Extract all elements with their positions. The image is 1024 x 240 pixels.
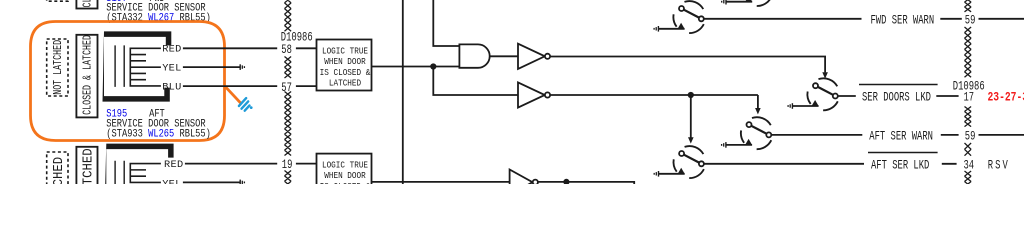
svg-text:RSV: RSV <box>988 159 1010 173</box>
lower sensor NOT LATCHED dashed box (cut off bottom) <box>47 152 68 209</box>
wire SER DOORS LKD row <box>838 95 959 97</box>
svg-text:LOGIC TRUE: LOGIC TRUE <box>322 160 368 171</box>
svg-text:WHEN DOOR: WHEN DOOR <box>324 170 365 181</box>
svg-text:59: 59 <box>965 130 976 144</box>
svg-text:YEL: YEL <box>162 62 181 74</box>
svg-text:D10986: D10986 <box>953 80 985 94</box>
AFT sensor CLOSED & LATCHED box <box>76 35 97 118</box>
wire BLU to pin 57 <box>183 85 317 87</box>
svg-text:BLU: BLU <box>162 81 181 93</box>
svg-text:19: 19 <box>282 159 293 173</box>
FWD sensor CLOSED & LATCHED box (cut off top) <box>76 0 97 9</box>
sensor S195 coil comb <box>130 48 161 87</box>
svg-text:WHEN DOOR: WHEN DOOR <box>324 56 365 67</box>
lower sensor bracket <box>101 144 174 240</box>
orange leader line <box>225 86 242 104</box>
svg-text:YEL: YEL <box>162 179 181 185</box>
node junction dot A <box>430 63 436 69</box>
wire AND output <box>490 55 518 57</box>
orange highlight rounded rect annotation <box>31 22 225 141</box>
svg-text:23-27-31: 23-27-31 <box>988 92 1024 105</box>
svg-text:NOT LATCHED: NOT LATCHED <box>50 157 66 184</box>
overline AFT SER LKD <box>868 152 938 154</box>
svg-text:59: 59 <box>965 14 976 28</box>
svg-text:LATCHED: LATCHED <box>329 78 361 89</box>
wire AFT SER LKD row <box>704 163 957 165</box>
svg-text:AFT SER WARN: AFT SER WARN <box>869 130 933 144</box>
svg-text:(STA933 WL265 RBL55): (STA933 WL265 RBL55) <box>106 128 211 140</box>
inverter U4 <box>518 82 545 107</box>
wire FWD SER WARN row <box>704 18 1024 20</box>
logic box U2: LOGIC TRUE WHEN DOOR (cut off bottom) <box>317 154 372 205</box>
wire inverter U3 output to SER DOORS LKD switch <box>550 57 825 73</box>
svg-text:IS CLOSED &: IS CLOSED & <box>320 181 371 184</box>
svg-text:IS CLOSED &: IS CLOSED & <box>320 67 371 78</box>
vertical bus wire <box>402 0 404 184</box>
lower sensor CLOSED & LATCHED box (cut off bottom) <box>76 147 97 230</box>
shield termination YEL <box>239 64 241 70</box>
actuation arrow to AFT SER LKD switch <box>690 95 692 138</box>
wire node A down to inverter U4 <box>433 67 518 96</box>
wire AFT SER WARN row <box>771 134 1024 136</box>
inverter U3 <box>518 44 545 69</box>
svg-text:LOGIC TRUE: LOGIC TRUE <box>322 46 368 57</box>
overline SER DOORS LKD <box>859 84 938 86</box>
switch S2 SER DOORS LKD <box>788 78 838 110</box>
wire U1 output <box>372 66 460 68</box>
svg-text:NOT LATCHED: NOT LATCHED <box>53 40 66 95</box>
blue cursor icon <box>239 98 250 111</box>
switch S3 AFT SER WARN <box>722 117 772 149</box>
wire YEL to shield ground <box>183 66 240 68</box>
logic box U1: LOGIC TRUE WHEN DOOR IS CLOSED & LATCHED <box>317 40 372 91</box>
svg-text:CLOSED & LATCHED: CLOSED & LATCHED <box>80 148 96 184</box>
svg-text:RED: RED <box>164 159 183 171</box>
wire AND top input from above <box>433 0 459 46</box>
wire U2 output <box>372 181 510 183</box>
switch S4 AFT SER LKD <box>654 146 704 178</box>
sensor S195 bracket <box>103 31 172 101</box>
svg-text:SER DOORS LKD: SER DOORS LKD <box>862 91 931 105</box>
connector D10986 (right) chain <box>965 0 972 187</box>
FWD sensor NOT LATCHED dashed box (cut off top) <box>47 0 68 1</box>
shield termination YEL lower <box>239 180 241 186</box>
wire inverter U4 output <box>550 94 758 96</box>
node junction dot C <box>563 179 569 185</box>
switch S1 FWD SER WARN <box>654 1 704 33</box>
AFT sensor NOT LATCHED dashed box <box>47 39 68 96</box>
svg-text:FWD SER WARN: FWD SER WARN <box>871 14 935 28</box>
svg-text:CLOSED & LATCHED: CLOSED & LATCHED <box>83 0 96 8</box>
svg-text:RED: RED <box>162 44 181 56</box>
connector D10986 (left) chain <box>285 0 292 187</box>
svg-text:58: 58 <box>281 44 292 58</box>
svg-text:57: 57 <box>281 81 292 95</box>
AND gate <box>459 44 489 67</box>
wire YEL lower (cut) <box>183 181 240 183</box>
lower sensor coil comb <box>130 163 161 183</box>
wire inverter U5 output <box>538 182 634 184</box>
actuation arrow to AFT SER WARN switch <box>757 95 759 109</box>
sensor S195 target plates <box>115 45 124 87</box>
wire RED to pin 19 <box>185 163 317 165</box>
inverter U5 (cut off bottom) <box>510 170 533 195</box>
wire RED to pin 58 <box>183 47 317 49</box>
lower sensor target plates <box>115 161 124 184</box>
node junction dot B <box>688 92 694 98</box>
svg-text:AFT SER LKD: AFT SER LKD <box>871 159 930 173</box>
switch S0 (cut off top) <box>722 0 772 6</box>
svg-text:CLOSED & LATCHED: CLOSED & LATCHED <box>83 35 96 115</box>
